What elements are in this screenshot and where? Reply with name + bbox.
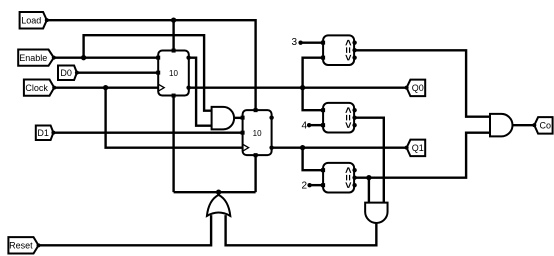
svg-text:D1: D1 — [37, 128, 49, 138]
svg-text:>: > — [343, 39, 355, 45]
svg-text:3: 3 — [292, 37, 298, 48]
svg-text:<: < — [343, 182, 355, 188]
svg-text:Reset: Reset — [9, 241, 33, 251]
svg-text:D0: D0 — [60, 68, 72, 78]
svg-text:>: > — [343, 107, 355, 113]
svg-text:4: 4 — [302, 121, 308, 132]
svg-text:Enable: Enable — [19, 53, 47, 63]
svg-text:=: = — [343, 174, 355, 180]
svg-text:<: < — [343, 54, 355, 60]
svg-text:=: = — [343, 47, 355, 53]
svg-text:Load: Load — [21, 15, 41, 25]
svg-text:>: > — [343, 167, 355, 173]
svg-text:=: = — [343, 114, 355, 120]
svg-text:Q1: Q1 — [412, 143, 424, 153]
svg-text:Clock: Clock — [25, 83, 48, 93]
svg-text:2: 2 — [302, 181, 308, 192]
svg-text:Q0: Q0 — [412, 83, 424, 93]
svg-text:Co: Co — [540, 120, 552, 130]
svg-text:<: < — [343, 122, 355, 128]
svg-text:10: 10 — [169, 69, 178, 78]
svg-text:10: 10 — [253, 129, 262, 138]
